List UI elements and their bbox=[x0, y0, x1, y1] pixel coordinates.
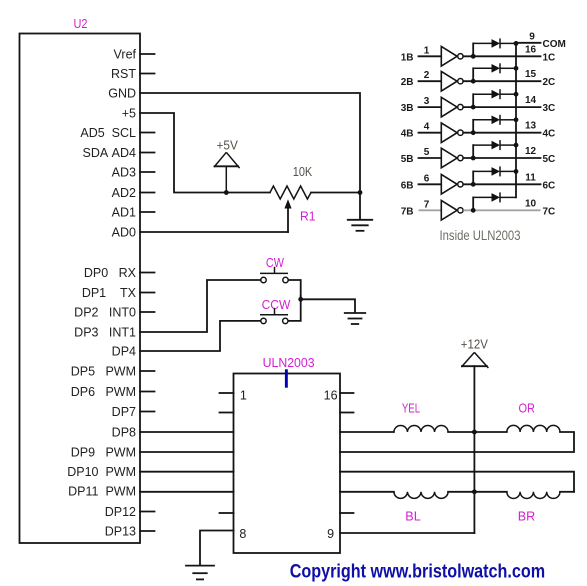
svg-text:3B: 3B bbox=[401, 103, 414, 114]
junction BL-BR +12V bbox=[472, 489, 477, 494]
wire buttons junction to ground bbox=[301, 299, 355, 312]
svg-text:OR: OR bbox=[518, 402, 535, 416]
svg-text:DP9 PWM: DP9 PWM bbox=[71, 446, 136, 460]
svg-text:Vref: Vref bbox=[114, 48, 137, 62]
junction output 6 bbox=[471, 182, 476, 187]
pin DP9 PWM of U2 bbox=[71, 446, 136, 460]
pin number 12 bbox=[525, 146, 537, 157]
wire AD0 to pot wiper bbox=[140, 231, 288, 233]
diode D4 bbox=[473, 115, 516, 125]
pin 2B label bbox=[401, 77, 414, 88]
pin number 15 bbox=[525, 69, 537, 80]
svg-text:8: 8 bbox=[239, 527, 246, 541]
svg-text:DP8: DP8 bbox=[112, 426, 136, 440]
wire ULN2003 pin 9 to +12V rail bbox=[340, 532, 474, 534]
wire DP10 to ULN2003 bbox=[140, 471, 234, 473]
pin +5 of U2 bbox=[122, 107, 136, 121]
svg-text:4C: 4C bbox=[543, 129, 556, 140]
junction rail row 1 bbox=[514, 41, 519, 46]
pin DP10 PWM of U2 bbox=[67, 465, 136, 479]
pin SDA AD4 of U2 bbox=[83, 146, 155, 160]
wire 1C output bbox=[463, 55, 540, 57]
svg-text:2C: 2C bbox=[543, 77, 556, 88]
wire +12V rail to OR bbox=[474, 431, 506, 433]
svg-text:13: 13 bbox=[525, 121, 537, 132]
pin DP6 PWM of U2 bbox=[71, 385, 155, 399]
wire DP9 to ULN2003 bbox=[140, 451, 234, 453]
pin DP8 of U2 bbox=[112, 426, 136, 440]
svg-text:AD1: AD1 bbox=[112, 206, 136, 220]
pin number 7 bbox=[424, 199, 430, 210]
pin DP1 TX of U2 bbox=[82, 286, 155, 300]
wire 7C output bbox=[463, 209, 540, 211]
svg-text:+5: +5 bbox=[122, 107, 136, 121]
pin number 10 bbox=[525, 198, 537, 209]
svg-text:1: 1 bbox=[424, 45, 430, 56]
wire GND net (U2 GND pin to ground rail) bbox=[140, 93, 360, 219]
pin 4B label bbox=[401, 129, 414, 140]
junction output 4 bbox=[471, 130, 476, 135]
wire 2C output bbox=[463, 80, 540, 82]
wire ULN2003 pin 8 to ground bbox=[200, 531, 234, 566]
junction rail row 6 bbox=[514, 169, 519, 174]
pin number 8 (ULN2003) bbox=[239, 527, 246, 541]
inductor OR bbox=[507, 425, 560, 432]
svg-text:4: 4 bbox=[424, 122, 430, 133]
svg-text:DP5 PWM: DP5 PWM bbox=[71, 365, 136, 379]
pin DP2 INT0 of U2 bbox=[74, 306, 154, 320]
pushbutton CW bbox=[260, 267, 288, 283]
wire diode 5 branch bbox=[472, 145, 474, 158]
pin AD0 of U2 bbox=[112, 226, 136, 240]
diode D5 bbox=[473, 140, 516, 150]
svg-text:2B: 2B bbox=[401, 77, 414, 88]
svg-text:Inside ULN2003: Inside ULN2003 bbox=[440, 228, 521, 243]
pin COM label bbox=[543, 39, 566, 50]
wire ULN2003 pin 12 row bbox=[340, 472, 574, 492]
pin number 6 bbox=[424, 173, 430, 184]
wire DP8 to ULN2003 bbox=[140, 431, 234, 433]
svg-text:7: 7 bbox=[424, 199, 430, 210]
svg-text:2: 2 bbox=[424, 70, 430, 81]
wire CW right terminal to junction bbox=[288, 280, 300, 296]
wire OR return to ULN2003 pin 13 bbox=[340, 432, 574, 452]
wire diode 6 branch bbox=[472, 171, 474, 184]
diode D6 bbox=[473, 166, 516, 176]
svg-text:1C: 1C bbox=[543, 52, 556, 63]
wire 3C output bbox=[463, 106, 540, 108]
pin 6C label bbox=[543, 180, 556, 191]
junction output 5 bbox=[471, 156, 476, 161]
wire 5C output bbox=[463, 157, 540, 159]
pin AD1 of U2 bbox=[112, 206, 155, 220]
svg-text:DP1 TX: DP1 TX bbox=[82, 286, 137, 300]
svg-text:3C: 3C bbox=[543, 103, 556, 114]
label YEL bbox=[402, 402, 420, 416]
svg-text:12: 12 bbox=[525, 146, 537, 157]
potentiometer R1 body bbox=[270, 186, 311, 199]
svg-text:RST: RST bbox=[111, 67, 136, 81]
pin number 11 bbox=[525, 172, 536, 183]
label BL bbox=[405, 509, 421, 523]
pin DP7 of U2 bbox=[112, 405, 155, 419]
wire 1B input bbox=[419, 55, 442, 57]
pin 5C label bbox=[543, 154, 556, 165]
junction output 3 bbox=[471, 105, 476, 110]
wire COM rail vertical bbox=[515, 43, 517, 198]
junction buttons common bbox=[298, 297, 303, 302]
svg-text:6: 6 bbox=[424, 173, 430, 184]
pin number 9 (COM) bbox=[529, 32, 535, 43]
ground (buttons) bbox=[345, 313, 366, 324]
svg-text:+5V: +5V bbox=[217, 137, 239, 152]
pin DP3 INT1 of U2 bbox=[74, 326, 136, 340]
wire COM pin 9 bbox=[516, 42, 541, 44]
wire DP3 INT1 to CW left terminal bbox=[140, 280, 260, 332]
wire +12V rail vertical bbox=[473, 366, 475, 533]
inductor BR bbox=[507, 492, 560, 499]
driver buffer 5 bbox=[441, 148, 463, 168]
pin RST of U2 bbox=[111, 67, 155, 81]
junction rail row 2 bbox=[514, 66, 519, 71]
svg-text:R1: R1 bbox=[300, 209, 316, 223]
pin 4C label bbox=[543, 129, 556, 140]
wire YEL to +12V rail bbox=[448, 431, 474, 433]
svg-text:5C: 5C bbox=[543, 154, 556, 165]
junction output 1 bbox=[471, 54, 476, 59]
driver buffer 6 bbox=[441, 175, 463, 195]
svg-text:DP3 INT1: DP3 INT1 bbox=[74, 326, 136, 340]
driver buffer 1 bbox=[441, 47, 463, 67]
junction output 7 bbox=[471, 208, 476, 213]
svg-text:DP7: DP7 bbox=[112, 405, 136, 419]
label +12V bbox=[461, 338, 489, 352]
pin 1 stub bbox=[220, 392, 234, 394]
ground (top right) bbox=[348, 220, 373, 231]
pin 2 stub bbox=[220, 412, 234, 414]
svg-text:BL: BL bbox=[405, 509, 421, 523]
wire BL to +12V rail bbox=[448, 491, 474, 493]
svg-text:11: 11 bbox=[525, 172, 536, 183]
pin AD5 SCL of U2 bbox=[80, 126, 154, 140]
svg-text:AD2: AD2 bbox=[112, 186, 136, 200]
pin 7 stub bbox=[220, 512, 234, 514]
wire diode 2 branch bbox=[472, 68, 474, 81]
wire 2B input bbox=[419, 80, 442, 82]
svg-text:SDA AD4: SDA AD4 bbox=[83, 146, 137, 160]
op-amp/MCU U2 box bbox=[20, 34, 141, 544]
svg-text:6C: 6C bbox=[543, 180, 556, 191]
svg-text:10K: 10K bbox=[293, 164, 313, 179]
wire diode 1 branch bbox=[472, 43, 474, 56]
wire pot right end to GND rail bbox=[311, 192, 360, 194]
svg-text:7B: 7B bbox=[401, 206, 414, 217]
pin DP4 of U2 bbox=[112, 345, 136, 359]
junction +5V supply on +5 net bbox=[224, 190, 229, 195]
svg-text:DP11 PWM: DP11 PWM bbox=[68, 485, 136, 499]
label R1 bbox=[300, 209, 316, 223]
svg-text:3: 3 bbox=[424, 96, 430, 107]
label CCW bbox=[262, 298, 291, 312]
wire diode 4 branch bbox=[472, 120, 474, 133]
label BR bbox=[518, 509, 536, 523]
ground (ULN2003 pin 8) bbox=[186, 566, 214, 580]
svg-text:1: 1 bbox=[240, 389, 247, 403]
svg-text:5: 5 bbox=[424, 147, 430, 158]
svg-text:YEL: YEL bbox=[402, 402, 420, 416]
wire ULN2003 pin14 to YEL bbox=[340, 431, 394, 433]
pin 1C label bbox=[543, 52, 556, 63]
pin 16 stub bbox=[340, 392, 354, 394]
wire 3B input bbox=[419, 106, 442, 108]
driver buffer 3 bbox=[441, 97, 463, 117]
pin 7B label bbox=[401, 206, 414, 217]
wire +12V rail to BR bbox=[474, 491, 506, 493]
power +5V symbol bbox=[214, 152, 240, 192]
wire 4B input bbox=[419, 132, 442, 134]
pin 6B label bbox=[401, 180, 414, 191]
pin 15 stub bbox=[340, 412, 354, 414]
pin number 16 bbox=[525, 44, 537, 55]
pin DP11 PWM of U2 bbox=[68, 485, 136, 499]
polarity tick (blue) bbox=[285, 369, 288, 387]
svg-text:BR: BR bbox=[518, 509, 536, 523]
svg-text:Copyright www.bristolwatch.com: Copyright www.bristolwatch.com bbox=[290, 561, 546, 583]
pin AD2 of U2 bbox=[112, 186, 155, 200]
wire DP4 to CCW left terminal bbox=[140, 321, 260, 351]
diode D3 bbox=[473, 89, 516, 99]
potentiometer R1 wiper arrow bbox=[284, 199, 291, 232]
pin number 14 bbox=[525, 95, 537, 106]
svg-text:10: 10 bbox=[525, 198, 537, 209]
pushbutton CCW bbox=[260, 308, 288, 323]
pin DP12 of U2 bbox=[105, 505, 155, 519]
label CW bbox=[266, 256, 284, 270]
svg-text:9: 9 bbox=[529, 32, 535, 43]
svg-text:DP4: DP4 bbox=[112, 345, 136, 359]
wire diode 3 branch bbox=[472, 94, 474, 107]
wire DP11 to ULN2003 bbox=[140, 491, 234, 493]
junction YEL-OR +12V bbox=[472, 430, 477, 435]
pin GND of U2 bbox=[108, 87, 136, 101]
svg-text:DP12: DP12 bbox=[105, 505, 136, 519]
driver buffer 2 bbox=[441, 71, 463, 91]
junction output 2 bbox=[471, 79, 476, 84]
junction pot-GND rail bbox=[358, 190, 363, 195]
svg-text:1B: 1B bbox=[401, 52, 414, 63]
wire 6C output bbox=[463, 183, 540, 185]
pin 7C label bbox=[543, 206, 556, 217]
svg-text:U2: U2 bbox=[74, 17, 88, 31]
pin 3B label bbox=[401, 103, 414, 114]
svg-text:AD0: AD0 bbox=[112, 226, 136, 240]
pin number 16 (ULN2003) bbox=[324, 389, 338, 403]
wire 4C output bbox=[463, 132, 540, 134]
junction rail row 3 bbox=[514, 92, 519, 97]
svg-text:CCW: CCW bbox=[262, 298, 291, 312]
wire +5 net (U2 +5 pin to pot left end) bbox=[140, 113, 270, 193]
pin 1B label bbox=[401, 52, 414, 63]
svg-text:DP2 INT0: DP2 INT0 bbox=[74, 306, 136, 320]
junction rail row 5 bbox=[514, 143, 519, 148]
junction rail row 4 bbox=[514, 117, 519, 122]
svg-text:AD3: AD3 bbox=[112, 166, 136, 180]
pin DP13 of U2 bbox=[105, 525, 155, 539]
pin number 5 bbox=[424, 147, 430, 158]
caption Inside ULN2003 bbox=[440, 228, 521, 243]
wire ULN2003 pin 11 to BL bbox=[340, 491, 394, 493]
diode D1 bbox=[473, 38, 516, 48]
driver buffer 4 bbox=[441, 123, 463, 143]
wire CCW right terminal to junction bbox=[288, 296, 300, 321]
pin number 4 bbox=[424, 122, 430, 133]
svg-text:DP0 RX: DP0 RX bbox=[84, 266, 137, 280]
label OR bbox=[518, 402, 535, 416]
svg-text:15: 15 bbox=[525, 69, 537, 80]
IC ULN2003 box bbox=[234, 374, 341, 554]
value label 10K bbox=[293, 164, 313, 179]
wire 5B input bbox=[419, 157, 442, 159]
svg-text:16: 16 bbox=[324, 389, 338, 403]
pin DP5 PWM of U2 bbox=[71, 365, 155, 379]
svg-text:16: 16 bbox=[525, 44, 537, 55]
svg-text:DP13: DP13 bbox=[105, 525, 136, 539]
pin AD3 of U2 bbox=[112, 166, 155, 180]
pin number 1 (ULN2003) bbox=[240, 389, 247, 403]
label ULN2003 bbox=[263, 356, 315, 370]
label U2 bbox=[74, 17, 88, 31]
inductor YEL bbox=[394, 425, 448, 432]
copyright text bbox=[290, 561, 546, 583]
svg-text:9: 9 bbox=[327, 527, 334, 541]
pin number 13 bbox=[525, 121, 537, 132]
pin number 3 bbox=[424, 96, 430, 107]
svg-text:COM: COM bbox=[543, 39, 566, 50]
wire 7B input bbox=[419, 209, 442, 211]
driver buffer 7 bbox=[441, 201, 463, 221]
svg-text:6B: 6B bbox=[401, 180, 414, 191]
wire 6B input bbox=[419, 183, 442, 185]
svg-text:14: 14 bbox=[525, 95, 537, 106]
inductor BL bbox=[394, 492, 448, 499]
pin Vref of U2 bbox=[114, 48, 155, 62]
power +12V symbol bbox=[461, 352, 488, 368]
svg-text:ULN2003: ULN2003 bbox=[263, 356, 315, 370]
svg-text:GND: GND bbox=[108, 87, 136, 101]
pin number 9 (ULN2003) bbox=[327, 527, 334, 541]
svg-text:7C: 7C bbox=[543, 206, 556, 217]
svg-text:DP10 PWM: DP10 PWM bbox=[67, 465, 136, 479]
svg-text:+12V: +12V bbox=[461, 338, 489, 352]
pin 2C label bbox=[543, 77, 556, 88]
pin 3C label bbox=[543, 103, 556, 114]
label +5V bbox=[217, 137, 239, 152]
pin number 2 bbox=[424, 70, 430, 81]
pin 10 stub bbox=[340, 512, 354, 514]
wire BR right end up to pin12 row bbox=[560, 491, 574, 493]
svg-text:5B: 5B bbox=[401, 154, 414, 165]
pin 5B label bbox=[401, 154, 414, 165]
pin DP0 RX of U2 bbox=[84, 266, 155, 280]
diode D2 bbox=[473, 63, 516, 73]
wire diode 7 branch bbox=[472, 197, 474, 210]
svg-text:DP6 PWM: DP6 PWM bbox=[71, 385, 136, 399]
svg-text:4B: 4B bbox=[401, 129, 414, 140]
diode D7 bbox=[473, 192, 516, 202]
pin number 1 bbox=[424, 45, 430, 56]
svg-text:AD5 SCL: AD5 SCL bbox=[80, 126, 136, 140]
